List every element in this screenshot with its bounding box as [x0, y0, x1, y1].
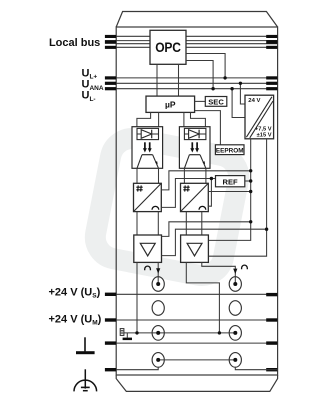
svg-text:REF: REF	[223, 178, 239, 187]
UL- connector bar right	[266, 87, 277, 90]
optocoupler 2	[179, 127, 210, 169]
+24V US rail	[116, 293, 277, 295]
wire OPC to uP right	[178, 64, 180, 96]
EEPROM block	[215, 145, 244, 155]
wire OPC to UL-	[186, 61, 213, 89]
terminal point dot 4.1	[156, 358, 160, 362]
output amplifier channel 2	[181, 235, 209, 262]
SEC block	[205, 97, 227, 107]
power rail U_ANA	[116, 82, 277, 84]
GND connector bar right	[266, 341, 277, 344]
terminal point dot 1.2	[233, 282, 237, 286]
wire REF node to dcdc2	[208, 179, 212, 207]
current loop symbol channel 2	[242, 265, 248, 269]
amp1 output wire with arrow to terminal 1.1	[157, 262, 159, 284]
+24V UM connector bar left	[105, 318, 116, 321]
terminal circle 3.1	[152, 326, 164, 341]
local bus connector bar left 2	[105, 40, 116, 44]
module housing outline	[116, 12, 277, 392]
junction on UL- left	[211, 87, 214, 90]
GND rail	[116, 342, 277, 344]
DC/DC isolator channel 1	[134, 183, 162, 211]
junction rail Va upper	[249, 169, 252, 172]
junction rail Va lower	[249, 190, 252, 193]
+24V UM connector bar right	[266, 318, 277, 321]
FE earth symbol	[84, 369, 86, 388]
junction on analog ground wire right	[218, 331, 221, 334]
DC/DC isolator channel 2	[181, 183, 209, 211]
local bus connector bar right 3	[266, 46, 277, 49]
shield resistor to FE	[120, 329, 124, 336]
UL- connector bar left	[105, 87, 116, 90]
internal ground symbol	[126, 333, 128, 338]
24V DC/DC converter	[245, 95, 274, 139]
terminal circle 3.2	[229, 326, 241, 341]
wire opto2 to dcdc2 left	[183, 168, 185, 183]
amp1 ground leg to terminal 3.1	[136, 262, 138, 333]
UANA connector bar right	[266, 82, 277, 85]
+24V UM rail	[116, 319, 277, 321]
terminal point dot 4.2	[233, 358, 237, 362]
wire amp1 to rail A	[162, 222, 251, 237]
wire local bus line 2	[116, 40, 277, 42]
power rail U_L-	[116, 88, 277, 90]
svg-text:±15 V: ±15 V	[257, 133, 272, 139]
wire dcdc1 to REF rail H2	[161, 179, 215, 208]
svg-text:24 V: 24 V	[248, 98, 260, 104]
FE connector bar left	[105, 368, 116, 371]
terminal point dot 3.1	[156, 331, 160, 335]
amp2 ground leg to terminal 3.2	[186, 262, 219, 333]
junction on analog ground wire left	[135, 331, 138, 334]
wire UANA to 24V converter	[240, 83, 245, 104]
terminal point dot 3.2	[233, 331, 237, 335]
junction on UANA	[239, 82, 242, 85]
wire uP to SEC	[195, 100, 206, 102]
wire OPC to UL+	[186, 54, 225, 78]
wire dcdc1 to amp1 left	[136, 212, 138, 235]
uP output wire to optocoupler 2 cathode	[191, 112, 206, 128]
wire local bus line 4	[116, 46, 277, 48]
junction on UL- right	[230, 87, 233, 90]
+24V US connector bar right	[266, 293, 277, 296]
FE wire right	[235, 367, 277, 370]
wire dcdc2 to amp2 right	[201, 212, 203, 235]
wire dcdc1 to supply rail H1	[161, 171, 250, 190]
local bus connector bar right 1	[266, 35, 277, 38]
watermark	[92, 135, 243, 280]
amp2 output wire with arrow to terminal 1.2	[202, 262, 236, 284]
svg-text:Local bus: Local bus	[49, 37, 100, 49]
uP output wire to optocoupler 1 cathode	[158, 112, 160, 128]
local bus connector bar left 1	[105, 35, 116, 38]
UANA connector bar left	[105, 82, 116, 85]
svg-text:SEC: SEC	[208, 97, 224, 106]
wire dcdc2 to supply rail	[208, 191, 250, 193]
wire REF to rail Va	[245, 180, 251, 182]
output amplifier channel 1	[134, 235, 162, 262]
REF block	[216, 176, 245, 187]
terminal circle 4.1	[152, 353, 164, 368]
wire local bus line 1	[116, 35, 277, 37]
terminal circle 1.2	[229, 277, 241, 292]
UL+ connector bar left	[105, 76, 116, 79]
terminal circle 2.1	[152, 301, 164, 316]
svg-text:EEPROM: EEPROM	[216, 147, 244, 154]
junction on UL+	[223, 76, 226, 79]
FE link wire row4	[158, 359, 235, 361]
terminal point dot 1.1	[156, 282, 160, 286]
junction rail Vb at rail B	[265, 228, 268, 231]
junction node at REF input	[210, 177, 213, 180]
microprocessor uP	[146, 96, 195, 112]
local bus connector bar right 2	[266, 40, 277, 44]
terminal circle 1.1	[152, 277, 164, 292]
wire dcdc2 to amp2 left	[185, 212, 187, 235]
optocoupler 1	[132, 127, 163, 169]
OPC block U1	[150, 30, 186, 64]
wire uP to EEPROM	[195, 111, 221, 145]
+24V US connector bar left	[105, 293, 116, 296]
wire opto1 to dcdc1 left	[136, 168, 138, 183]
power rail U_L+	[116, 77, 277, 79]
wire local bus line 3	[116, 43, 277, 45]
terminal circle 2.2	[229, 301, 241, 316]
GND connector bar left	[105, 341, 116, 344]
supply rail Vb down to amp2	[208, 139, 266, 256]
svg-text:µP: µP	[165, 99, 176, 109]
terminal circle 4.2	[229, 353, 241, 368]
wire opto1 to dcdc1 right	[158, 168, 160, 183]
current loop symbol channel 1	[145, 266, 151, 270]
local bus connector bar left 3	[105, 46, 116, 49]
GND symbol	[84, 337, 86, 351]
wire OPC to uP left	[156, 64, 158, 96]
wire amp1 to rail B	[162, 229, 267, 255]
FE connector bar right	[266, 368, 277, 371]
analog ground wire row3	[124, 332, 235, 334]
FE wire left	[116, 367, 158, 370]
wire UL- to 24V converter	[232, 89, 245, 118]
junction rail Va at rail A	[249, 220, 252, 223]
wire opto2 to dcdc2 right	[205, 168, 207, 183]
wire dcdc1 to amp1 right	[157, 212, 159, 235]
uP output wire to optocoupler 1 anode	[137, 112, 151, 128]
junction rail Va at REF	[249, 179, 252, 182]
supply rail Va down to amp2	[208, 139, 250, 241]
UL+ connector bar right	[266, 76, 277, 79]
svg-text:OPC: OPC	[155, 39, 181, 55]
uP output wire to optocoupler 2 anode	[183, 112, 185, 128]
